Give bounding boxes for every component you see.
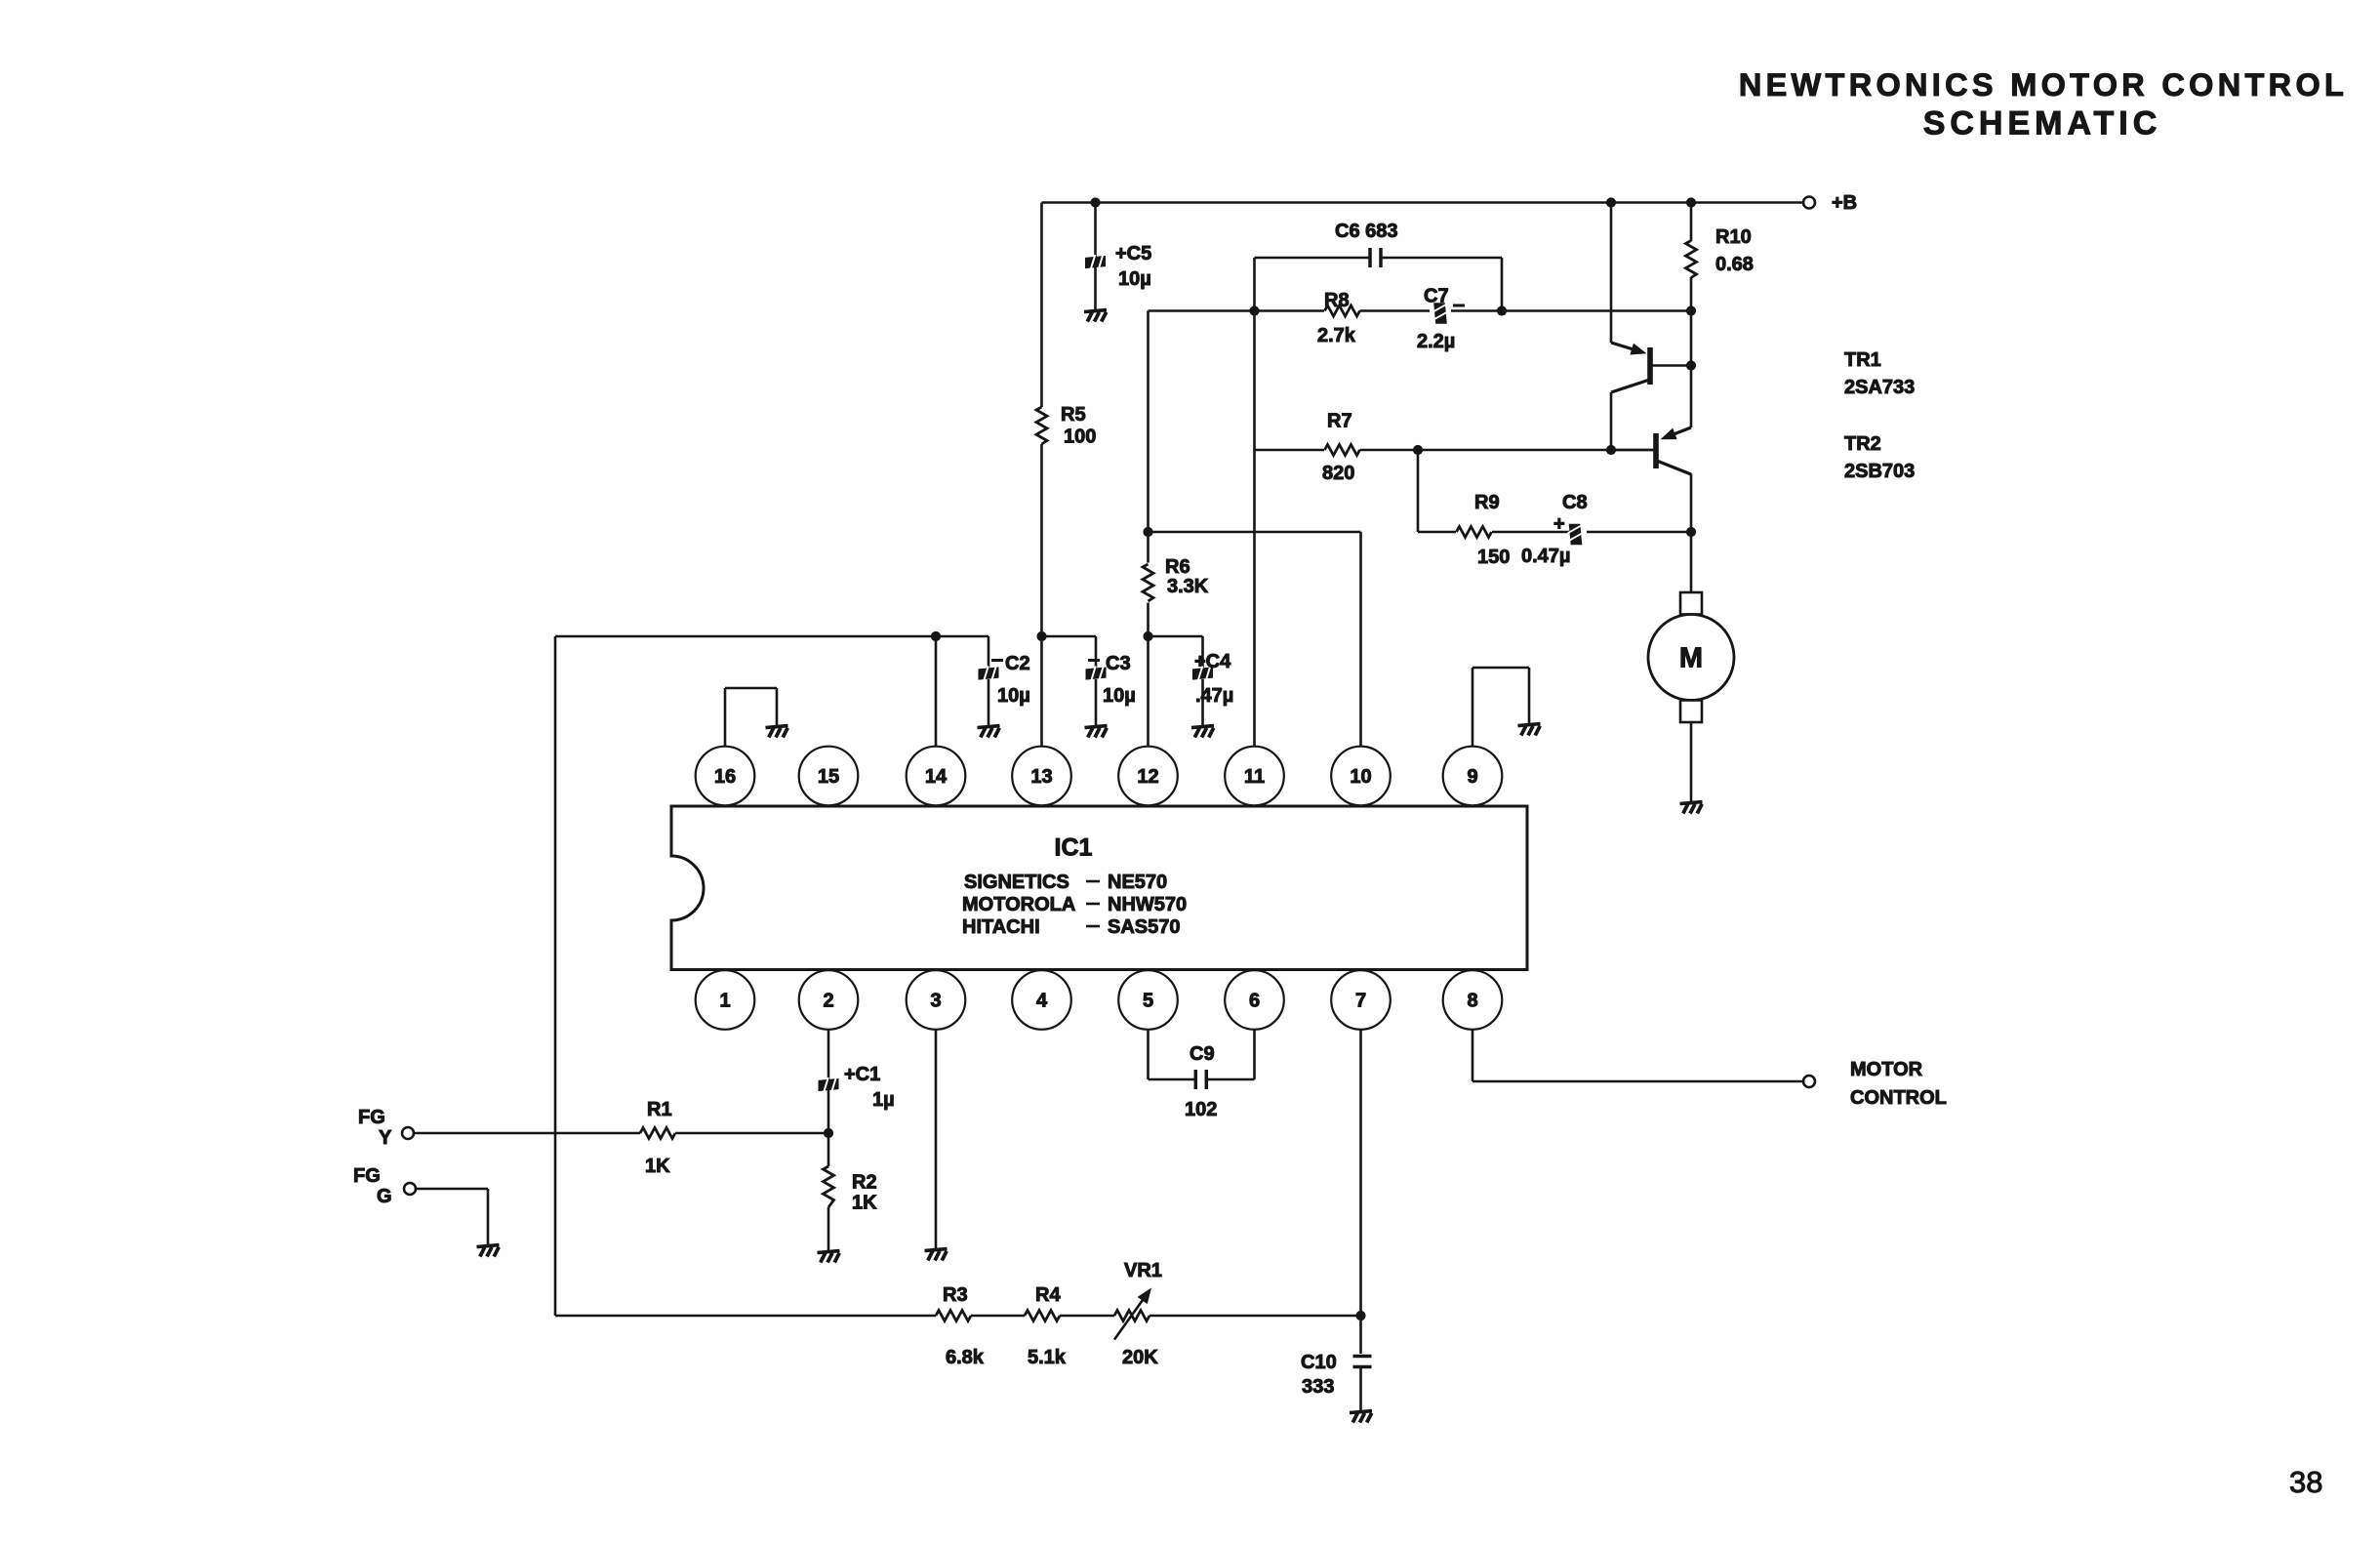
svg-text:VR1: VR1 bbox=[1124, 1260, 1162, 1281]
svg-text:R6: R6 bbox=[1165, 556, 1190, 578]
svg-text:G: G bbox=[377, 1186, 392, 1207]
svg-text:+B: +B bbox=[1832, 192, 1857, 214]
svg-text:MOTOROLA: MOTOROLA bbox=[962, 894, 1075, 915]
svg-text:+C1: +C1 bbox=[844, 1064, 880, 1085]
svg-text:NE570: NE570 bbox=[1108, 872, 1167, 893]
svg-text:100: 100 bbox=[1064, 427, 1096, 448]
svg-text:150: 150 bbox=[1477, 547, 1510, 568]
svg-text:9: 9 bbox=[1467, 766, 1477, 788]
svg-text:R7: R7 bbox=[1327, 411, 1352, 432]
svg-text:R2: R2 bbox=[852, 1172, 877, 1194]
svg-text:2.2µ: 2.2µ bbox=[1417, 331, 1455, 352]
svg-text:2.7k: 2.7k bbox=[1317, 325, 1356, 346]
svg-text:5.1k: 5.1k bbox=[1028, 1347, 1067, 1368]
svg-text:4: 4 bbox=[1036, 991, 1048, 1012]
svg-text:5: 5 bbox=[1143, 991, 1153, 1012]
svg-text:820: 820 bbox=[1322, 463, 1354, 484]
svg-text:SCHEMATIC: SCHEMATIC bbox=[1923, 105, 2162, 142]
svg-text:11: 11 bbox=[1244, 766, 1265, 788]
svg-text:R4: R4 bbox=[1035, 1284, 1061, 1306]
svg-text:10µ: 10µ bbox=[997, 685, 1030, 707]
svg-text:MOTOR: MOTOR bbox=[1850, 1059, 1923, 1080]
svg-text:38: 38 bbox=[2289, 1465, 2322, 1499]
svg-text:C7: C7 bbox=[1424, 286, 1449, 307]
svg-text:SIGNETICS: SIGNETICS bbox=[964, 872, 1069, 893]
svg-text:3.3K: 3.3K bbox=[1167, 576, 1209, 597]
svg-text:2SB703: 2SB703 bbox=[1844, 461, 1915, 482]
svg-text:NHW570: NHW570 bbox=[1108, 894, 1187, 915]
svg-text:IC1: IC1 bbox=[1055, 834, 1093, 862]
svg-text:1µ: 1µ bbox=[872, 1089, 895, 1111]
svg-text:16: 16 bbox=[714, 766, 736, 788]
svg-text:13: 13 bbox=[1030, 766, 1052, 788]
svg-text:6: 6 bbox=[1249, 991, 1260, 1012]
svg-text:2: 2 bbox=[823, 991, 833, 1012]
svg-text:14: 14 bbox=[925, 766, 948, 788]
svg-text:15: 15 bbox=[818, 766, 839, 788]
svg-text:FG: FG bbox=[353, 1165, 381, 1187]
svg-text:FG: FG bbox=[358, 1107, 385, 1128]
svg-text:R1: R1 bbox=[647, 1099, 672, 1120]
svg-text:102: 102 bbox=[1185, 1099, 1217, 1120]
svg-text:0.68: 0.68 bbox=[1715, 254, 1754, 275]
svg-text:R9: R9 bbox=[1474, 492, 1500, 513]
svg-text:12: 12 bbox=[1137, 766, 1158, 788]
svg-text:8: 8 bbox=[1467, 991, 1477, 1012]
svg-text:C6 683: C6 683 bbox=[1335, 221, 1398, 242]
svg-text:+: + bbox=[1553, 513, 1565, 535]
svg-text:R5: R5 bbox=[1061, 404, 1086, 426]
svg-text:333: 333 bbox=[1302, 1376, 1334, 1398]
svg-text:CONTROL: CONTROL bbox=[1850, 1087, 1947, 1109]
svg-text:1: 1 bbox=[719, 991, 730, 1012]
svg-text:10: 10 bbox=[1350, 766, 1371, 788]
svg-text:Y: Y bbox=[379, 1127, 392, 1149]
svg-text:HITACHI: HITACHI bbox=[962, 916, 1040, 938]
svg-text:C10: C10 bbox=[1301, 1352, 1337, 1373]
svg-text:NEWTRONICS MOTOR CONTROL: NEWTRONICS MOTOR CONTROL bbox=[1739, 67, 2348, 102]
svg-text:20K: 20K bbox=[1122, 1347, 1158, 1368]
svg-text:R10: R10 bbox=[1715, 226, 1752, 248]
svg-text:7: 7 bbox=[1355, 991, 1366, 1012]
svg-text:TR1: TR1 bbox=[1844, 349, 1881, 371]
svg-text:C9: C9 bbox=[1190, 1043, 1215, 1065]
svg-text:10µ: 10µ bbox=[1118, 268, 1151, 290]
svg-text:3: 3 bbox=[930, 991, 941, 1012]
svg-text:TR2: TR2 bbox=[1844, 433, 1881, 455]
svg-text:SAS570: SAS570 bbox=[1108, 916, 1181, 938]
svg-text:M: M bbox=[1679, 643, 1703, 674]
svg-text:C2: C2 bbox=[1005, 653, 1030, 674]
svg-text:C8: C8 bbox=[1562, 492, 1588, 513]
svg-text:R8: R8 bbox=[1324, 290, 1350, 311]
svg-text:.47µ: .47µ bbox=[1195, 685, 1233, 707]
svg-text:1K: 1K bbox=[645, 1156, 670, 1177]
svg-text:0.47µ: 0.47µ bbox=[1521, 546, 1570, 567]
svg-text:2SA733: 2SA733 bbox=[1844, 377, 1915, 398]
svg-text:+C4: +C4 bbox=[1194, 651, 1231, 672]
svg-text:C3: C3 bbox=[1106, 653, 1131, 674]
svg-text:1K: 1K bbox=[852, 1193, 877, 1214]
svg-text:6.8k: 6.8k bbox=[946, 1347, 985, 1368]
svg-text:R3: R3 bbox=[943, 1284, 968, 1306]
svg-text:10µ: 10µ bbox=[1103, 685, 1136, 707]
svg-text:+C5: +C5 bbox=[1115, 243, 1151, 264]
